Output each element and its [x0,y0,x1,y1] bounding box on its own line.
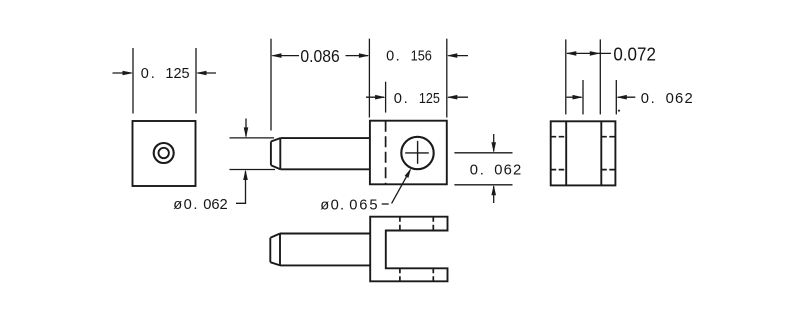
side view hole circle [401,137,433,169]
svg-text:0.: 0. [641,91,657,107]
dim extension line head right [446,39,448,118]
svg-text:0.: 0. [141,66,157,82]
fork view tip bottom chamfer [270,262,280,265]
dia 0.062 ext line shaft bottom [230,169,276,171]
side view slot depth hidden line [385,121,387,185]
dim 0.086 left arrow [271,53,299,58]
svg-text:0.: 0. [386,48,401,64]
dim 0.125 left arrow [113,71,134,76]
side view chamfer boundary [279,138,281,169]
fork view tip top chamfer [270,234,280,238]
dim 0.062 ext line right edge [615,80,617,114]
svg-text:062: 062 [494,162,522,178]
svg-text:0.: 0. [394,91,409,107]
fork view shaft top line [280,233,370,235]
fork hidden hole line top-left [399,217,401,231]
dia 0.062 leader with bottom arrow [236,170,248,204]
fork hidden hole line bottom-left [399,268,401,281]
dia 0.062 ext line shaft top [230,137,275,139]
fork view tip left edge [269,238,271,262]
end view outer rect [551,121,616,185]
svg-text:0.072: 0.072 [613,45,656,66]
hole crosshair vertical [417,141,419,164]
side view head rectangle [370,121,447,185]
dim 0.125 stub extension line [385,82,387,113]
dim 0.156 right arrow [447,53,468,58]
dim 0.125 left arrow (head) [366,95,386,100]
fork hidden hole line top-right [432,217,434,231]
svg-text:ø0.: ø0. [173,197,199,213]
fork view shaft bottom line [280,264,370,266]
dim 0.072 ext line left [565,39,567,114]
svg-text:125: 125 [165,66,189,82]
svg-text:156: 156 [411,48,432,64]
front view pin boss outer circle [154,143,174,163]
dim 0.062 bottom arrow [491,185,496,203]
dim 0.062 left arrow [567,95,583,100]
dia 0.065 leader [382,168,412,204]
dim 0.072 ext line right [599,39,601,114]
svg-text:062: 062 [666,91,694,107]
dim 0.062 ext line center [582,80,584,114]
fork hidden hole line bottom-right [432,268,434,281]
dim 0.125 right arrow [196,71,216,76]
svg-text:0.086: 0.086 [300,46,339,66]
front view square plate [133,121,196,186]
svg-text:065: 065 [349,198,379,214]
end view slot wall left [565,121,567,185]
dim 0.062 top arrow [491,134,496,153]
dim 0.125 extension line right [195,48,197,114]
side view tip top chamfer [271,138,280,141]
dim 0.062 ext line at hole center [454,152,512,154]
dim extension line head left [368,39,370,118]
hole crosshair horizontal [405,152,429,154]
end view hidden hole bottom-left [551,169,567,171]
side view tip left edge [270,142,272,166]
fork view chamfer boundary [279,234,281,266]
svg-text:ø0.: ø0. [320,198,345,214]
dim 0.072 dimension line with arrows [566,51,611,56]
svg-text:0.: 0. [470,162,486,178]
svg-text:062: 062 [203,197,228,213]
end view slot wall right [600,121,602,185]
dim 0.062 ext line at head bottom [454,184,512,186]
front view pin boss inner circle [159,148,169,158]
scan speck [618,110,620,112]
dim 0.062 right arrow [616,95,635,100]
fork outline [370,217,447,282]
dia 0.062 top arrow [244,119,249,138]
dim extension line pin tip [270,39,272,131]
end view hidden hole top-left [551,136,567,138]
side view shaft top line [280,137,370,139]
dim 0.086 right arrow [346,53,370,58]
dim 0.125 extension line left [132,48,134,114]
side view shaft bottom line [280,168,370,170]
end view hidden hole top-right [601,136,615,138]
dim 0.125 right arrow (head) [447,95,468,100]
svg-text:125: 125 [419,91,440,107]
side view tip bottom chamfer [271,165,280,169]
end view hidden hole bottom-right [601,169,615,171]
